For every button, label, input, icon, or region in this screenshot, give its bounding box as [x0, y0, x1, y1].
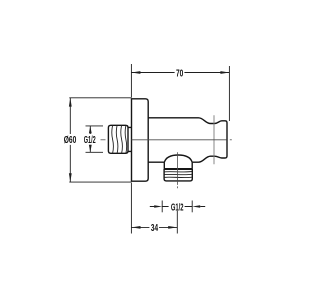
collar between thread and plate: [128, 127, 132, 151]
dimension line 34: [131, 226, 177, 228]
svg-text:G1/2: G1/2: [84, 135, 96, 146]
right tail of outlet G1/2: [185, 206, 206, 208]
dimension G1/2 outlet: [150, 201, 205, 213]
svg-text:70: 70: [176, 68, 184, 79]
horizontal centerline: [101, 139, 232, 141]
right extension line of 70: [228, 66, 230, 121]
holder arm top profile: [148, 118, 227, 162]
bottom extension line of Ø60: [69, 181, 131, 183]
dimension line inlet G1/2: [89, 126, 91, 152]
dome sides: [164, 162, 192, 169]
top extension line of Ø60: [69, 97, 131, 99]
arrowheads of 34: [132, 226, 178, 229]
left extension line of 34: [130, 183, 132, 234]
cup edge line: [213, 115, 215, 164]
nut top heavy line: [164, 168, 193, 170]
arrowheads of inlet G1/2: [89, 126, 92, 152]
svg-text:Ø60: Ø60: [64, 135, 77, 146]
inlet thread lines: [112, 125, 127, 153]
dimension line 70: [131, 72, 229, 74]
inlet thread G1/2 body: [108, 125, 128, 153]
top extension line of inlet G1/2: [86, 125, 104, 127]
right extension line of outlet G1/2: [191, 201, 193, 213]
dimension 34: [131, 183, 177, 234]
right extension line of 34: [176, 211, 178, 234]
left extension line of outlet G1/2: [161, 201, 163, 213]
outlet nut: [164, 169, 192, 181]
arrowheads of Ø60: [69, 98, 72, 182]
svg-text:34: 34: [151, 223, 158, 234]
bottom extension line of inlet G1/2: [86, 151, 104, 153]
holder arm bottom line (plate to dome): [148, 161, 164, 163]
left extension line of 70: [130, 64, 132, 98]
nut thread lines: [164, 172, 192, 178]
outlet centerline: [177, 152, 179, 188]
dimension line Ø60: [69, 98, 71, 182]
dimension 70: [131, 64, 229, 121]
arrowheads of outlet G1/2: [154, 205, 200, 208]
arrowheads of 70: [131, 71, 229, 74]
left tail of outlet G1/2: [150, 206, 169, 208]
dimension G1/2 inlet: [86, 126, 104, 152]
outlet dome: [164, 155, 192, 162]
wall plate: [132, 99, 149, 181]
dimension Ø60: [69, 98, 131, 182]
